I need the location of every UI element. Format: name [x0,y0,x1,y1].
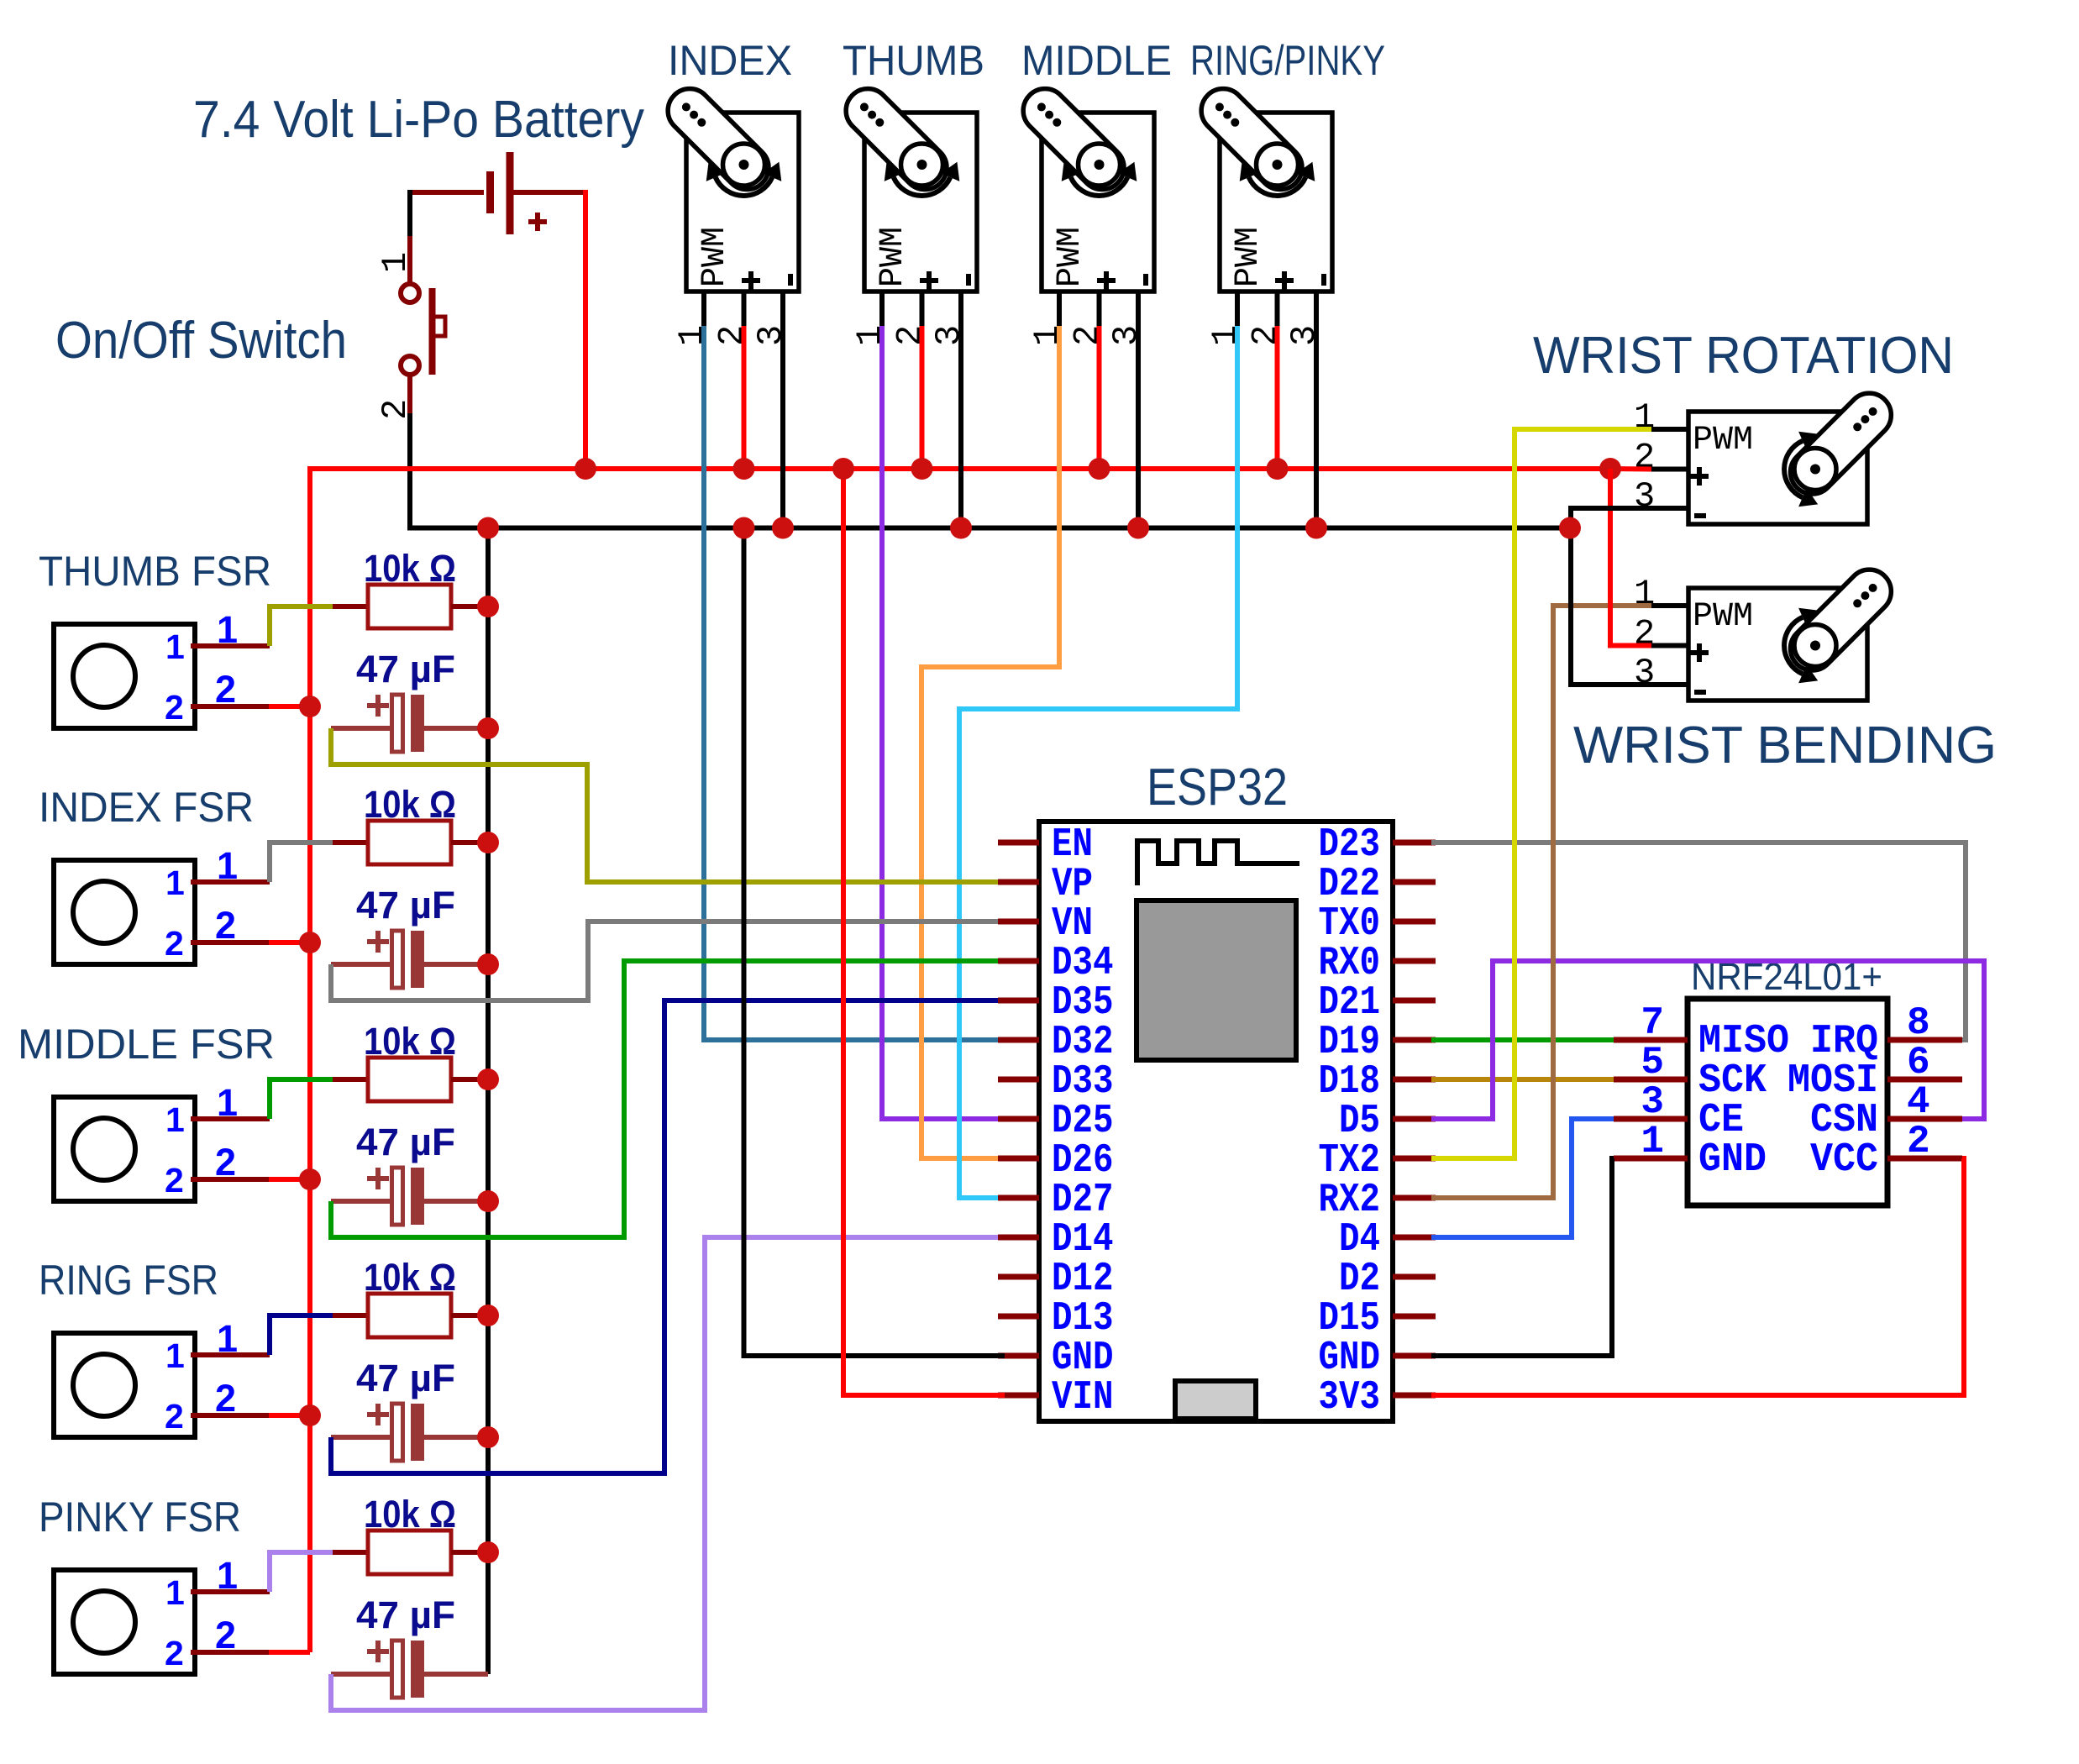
ESP32 pin GND [1393,1353,1436,1359]
junction dot R1 to ground column [477,596,499,617]
NRF24L01+ pin 8 IRQ [1887,1037,1962,1043]
junction dot switch/ground column [477,517,499,539]
wire THUMB servo pin 1 (PWM) [879,291,885,326]
svg-text:INDEX FSR: INDEX FSR [39,784,254,831]
svg-text:PWM: PWM [1052,227,1089,287]
wire THUMB FSR divider tap to ESP32 [331,728,1005,882]
wire RING FSR divider tap to ESP32 [331,1000,1005,1473]
wire switch pin 2 to ground bus [407,375,412,413]
force sensor PINKY FSR [54,1570,195,1674]
capacitor 47uF C1 [367,703,389,708]
svg-text:D15: D15 [1319,1296,1381,1341]
wire red drop to wrist bending + [1610,469,1651,646]
black ground bus [407,526,1570,531]
wire INDEX PWM to ESP32 D32 [704,326,1005,1040]
svg-text:IRQ: IRQ [1810,1019,1878,1064]
junction dot THUMB + [911,458,933,480]
junction dot pin2/red column [299,1404,321,1426]
junction dot RING/PINKY - [1305,517,1327,539]
svg-text:VCC: VCC [1810,1137,1878,1183]
red bus left drop to FSR pin2 column [307,466,312,1652]
wire ESP32 D4 to NRF CE [1431,1119,1614,1237]
svg-text:5: 5 [1641,1041,1664,1084]
junction dot MIDDLE + [1089,458,1110,480]
svg-text:MIDDLE: MIDDLE [1021,37,1172,84]
svg-text:THUMB: THUMB [843,37,984,84]
force sensor THUMB FSR [54,624,195,728]
capacitor 47uF C3 [367,1176,389,1181]
ESP32 pin RX2 [1393,1195,1436,1201]
svg-text:1: 1 [165,1100,185,1139]
svg-text:RING/PINKY: RING/PINKY [1190,37,1385,84]
servo motor wrist rotation [1634,384,1900,524]
wire PINKY FSR divider tap to ESP32 [331,1237,1005,1710]
ESP32 pin VIN [998,1393,1039,1399]
svg-text:2: 2 [165,1397,184,1436]
svg-text:D33: D33 [1052,1059,1114,1105]
wire ESP32 GND(left) to ground bus [744,528,1005,1357]
resistor 10k R4 [333,1313,368,1318]
svg-text:1: 1 [165,627,185,666]
svg-text:8: 8 [1907,1001,1930,1045]
wire MIDDLE servo pin 3 (-) to ground bus [1136,291,1141,528]
junction dot wrist -/ground bus [1559,517,1581,539]
svg-text:2: 2 [165,688,184,727]
wire ESP32 D18 to NRF SCK [1431,1077,1614,1082]
ESP32 pin D15 [1393,1314,1436,1320]
svg-text:2: 2 [165,1634,184,1672]
wire INDEX FSR pin 1 [191,879,270,885]
servo motor MIDDLE [1014,80,1154,346]
svg-text:D21: D21 [1319,980,1381,1026]
wire RING FSR pin 1 [191,1352,270,1357]
resistor 10k R3 [333,1077,368,1082]
svg-text:D27: D27 [1052,1178,1114,1223]
svg-text:WRIST ROTATION: WRIST ROTATION [1533,327,1954,385]
junction dot INDEX - [772,517,794,539]
junction dot wrist + [1599,458,1621,480]
ESP32 pin D25 [998,1116,1039,1122]
ESP32 pin D14 [998,1235,1039,1241]
wire MIDDLE FSR pin 2 to red column [191,1177,269,1182]
wire ESP32 GND to NRF GND [1431,1158,1614,1356]
svg-text:MOSI: MOSI [1788,1058,1878,1104]
force sensor RING FSR [54,1333,195,1437]
svg-text:INDEX: INDEX [668,37,792,84]
wire RING/PINKY servo pin 1 (PWM) [1235,291,1240,326]
junction dot R2 to ground column [477,832,499,853]
svg-text:D26: D26 [1052,1138,1114,1184]
junction dot C3 to ground column [477,1190,499,1212]
svg-text:MISO: MISO [1698,1019,1789,1064]
microcontroller ESP32 U1 [1039,822,1393,1421]
svg-text:PWM: PWM [696,227,734,287]
junction dot THUMB - [950,517,972,539]
wire PINKY FSR pin 1 [191,1589,270,1594]
svg-text:D35: D35 [1052,980,1114,1026]
wire THUMB servo pin 3 (-) to ground bus [958,291,963,528]
wire ESP32 TX2 to wrist rotation PWM [1431,429,1651,1158]
svg-text:PWM: PWM [874,227,912,287]
svg-text:1: 1 [1641,1120,1664,1163]
svg-text:TX0: TX0 [1319,901,1381,947]
svg-text:PWM: PWM [1693,598,1753,636]
svg-text:D13: D13 [1052,1296,1114,1341]
capacitor 47uF C5 [367,1649,389,1654]
resistor 10k R1 [333,604,368,609]
svg-text:CSN: CSN [1810,1098,1878,1143]
resistor 10k R2 [333,840,368,845]
svg-text:CE: CE [1698,1098,1744,1143]
junction dot battery/red bus [575,458,596,480]
capacitor 47uF C4 [367,1412,389,1417]
svg-text:47 µF: 47 µF [356,1121,455,1163]
wire INDEX servo pin 3 (-) to ground bus [780,291,785,528]
ESP32 pin D13 [998,1314,1039,1320]
ESP32 pin TX0 [1393,919,1436,925]
ESP32 pin D35 [998,998,1039,1004]
wire ESP32 D5 to NRF CSN [1431,961,1984,1119]
ESP32 pin D26 [998,1156,1039,1162]
svg-text:RX2: RX2 [1319,1178,1381,1223]
servo motor RING/PINKY [1192,80,1332,346]
svg-text:GND: GND [1698,1137,1767,1183]
svg-text:VN: VN [1052,901,1093,947]
wire RING FSR pin 2 to red column [191,1413,269,1418]
ESP32 pin D18 [1393,1077,1436,1083]
junction dot C2 to ground column [477,953,499,975]
svg-text:GND: GND [1052,1336,1114,1381]
svg-text:7.4 Volt Li-Po Battery: 7.4 Volt Li-Po Battery [193,91,644,149]
ground column to FSR resistors [486,528,491,1675]
svg-text:47 µF: 47 µF [356,648,455,690]
wire MIDDLE servo pin 1 (PWM) [1057,291,1062,326]
ESP32 pin D22 [1393,879,1436,885]
wire MIDDLE PWM to ESP32 D26 [921,326,1059,1158]
svg-text:On/Off Switch: On/Off Switch [55,312,347,370]
wire RING/PINKY servo pin 3 (-) to ground bus [1314,291,1319,528]
svg-text:PWM: PWM [1230,227,1268,287]
svg-text:WRIST BENDING: WRIST BENDING [1573,717,1997,774]
NRF24L01+ pin 1 GND [1614,1156,1688,1162]
svg-text:47 µF: 47 µF [356,884,455,927]
svg-text:D34: D34 [1052,941,1114,986]
ESP32 pin RX0 [1393,958,1436,964]
svg-text:D12: D12 [1052,1257,1114,1302]
svg-text:MIDDLE FSR: MIDDLE FSR [18,1021,275,1068]
NRF24L01+ pin 2 VCC [1887,1156,1962,1162]
junction dot MIDDLE - [1127,517,1149,539]
junction dot R4 to ground column [477,1305,499,1326]
svg-text:GND: GND [1319,1336,1381,1381]
ESP32 pin D4 [1393,1235,1436,1241]
svg-text:2: 2 [165,1161,184,1200]
svg-text:2: 2 [165,924,184,963]
ESP32 pin D19 [1393,1037,1436,1043]
svg-text:TX2: TX2 [1319,1138,1381,1184]
NRF24L01+ pin 6 MOSI [1887,1077,1962,1083]
wire battery- to switch pin 1 [407,190,412,236]
ESP32 pin 3V3 [1393,1393,1436,1399]
ESP32 pin D21 [1393,998,1436,1004]
svg-text:1: 1 [165,864,185,902]
ESP32 pin D5 [1393,1116,1436,1122]
junction dot pin2/red column [299,1168,321,1190]
svg-text:D19: D19 [1319,1020,1381,1065]
wire INDEX FSR divider tap to ESP32 [331,921,1005,1000]
radio module NRF24L01+ U2 [1688,999,1887,1205]
ESP32 pin D32 [998,1037,1039,1043]
svg-text:7: 7 [1641,1001,1664,1045]
wire THUMB FSR pin 2 to red column [191,704,269,709]
svg-text:3V3: 3V3 [1319,1375,1381,1420]
svg-text:THUMB FSR: THUMB FSR [39,548,271,595]
junction dot R3 to ground column [477,1068,499,1090]
NRF24L01+ pin 5 SCK [1614,1077,1688,1083]
wire PINKY FSR pin 2 to red column [191,1650,269,1655]
wire THUMB FSR pin 1 [191,643,270,648]
NRF24L01+ pin 3 CE [1614,1116,1688,1122]
resistor 10k R5 [333,1550,368,1555]
junction dot INDEX + [733,458,755,480]
svg-text:47 µF: 47 µF [356,1357,455,1399]
ESP32 pin D12 [998,1274,1039,1280]
svg-text:1: 1 [165,1573,185,1612]
wire MIDDLE FSR divider tap to ESP32 [331,961,1005,1237]
svg-text:PWM: PWM [1693,422,1753,459]
wire wrist rotation pin 3 (-) to ground bus [1571,508,1688,685]
wire RING/PINKY servo pin 2 (+) to red bus [1275,291,1280,326]
wire ESP32 3V3 to NRF VCC [1431,1158,1964,1395]
svg-text:VIN: VIN [1052,1375,1114,1420]
ESP32 pin TX2 [1393,1156,1436,1162]
capacitor 47uF C2 [367,939,389,944]
ESP32 pin D33 [998,1077,1039,1083]
wire INDEX servo pin 1 (PWM) [701,291,706,326]
svg-text:1: 1 [165,1336,185,1375]
wire RING/PINKY PWM to ESP32 D27 [959,326,1237,1198]
ESP32 pin VP [998,879,1039,885]
wire ESP32 D19 to NRF MISO [1431,1037,1614,1042]
junction dot pin2/red column [299,696,321,717]
wire MIDDLE FSR pin 1 [191,1116,270,1121]
junction dot RING/PINKY + [1267,458,1289,480]
wire ESP32 RX2 to wrist bending PWM [1431,606,1651,1198]
svg-text:D4: D4 [1339,1217,1380,1263]
svg-text:SCK: SCK [1698,1058,1767,1104]
wire wrist bending pin 2 (+) [1651,643,1688,648]
svg-text:2: 2 [1907,1120,1930,1163]
wire THUMB servo pin 2 (+) to red bus [920,291,925,326]
svg-text:RING FSR: RING FSR [39,1257,218,1304]
svg-text:VP: VP [1052,862,1093,907]
servo motor THUMB [837,80,977,346]
servo motor INDEX [659,80,799,346]
ESP32 pin D23 [1393,840,1436,846]
wire wrist rotation pin 2 (+) from red bus [1610,466,1651,472]
force sensor MIDDLE FSR [54,1097,195,1201]
force sensor INDEX FSR [54,860,195,964]
svg-text:D5: D5 [1339,1099,1380,1144]
junction dot R5 to ground column [477,1541,499,1563]
junction dot pin2/red column [299,932,321,953]
svg-text:1: 1 [375,252,416,273]
NRF24L01+ pin 4 CSN [1887,1116,1962,1122]
wire ESP32 VIN to red bus [843,469,1005,1395]
svg-text:6: 6 [1907,1041,1930,1084]
junction dot GND/ground bus [733,517,755,539]
junction dot VIN/red bus [832,458,854,480]
svg-text:ESP32: ESP32 [1147,759,1288,816]
ESP32 pin EN [998,840,1039,846]
wire MIDDLE servo pin 2 (+) to red bus [1097,291,1102,326]
svg-text:PINKY FSR: PINKY FSR [39,1494,241,1541]
svg-text:4: 4 [1907,1080,1930,1124]
svg-text:RX0: RX0 [1319,941,1381,986]
svg-text:D18: D18 [1319,1059,1381,1105]
wire INDEX servo pin 2 (+) to red bus [742,291,747,326]
svg-text:D32: D32 [1052,1020,1114,1065]
svg-text:D22: D22 [1319,862,1381,907]
wire wrist rotation pin 1 (PWM) [1651,427,1688,432]
svg-text:D23: D23 [1319,822,1381,868]
svg-text:D2: D2 [1339,1257,1380,1302]
ESP32 pin GND [998,1353,1039,1359]
svg-text:D25: D25 [1052,1099,1114,1144]
ESP32 pin D27 [998,1195,1039,1201]
junction dot C1 to ground column [477,717,499,739]
ESP32 pin D2 [1393,1274,1436,1280]
wire INDEX FSR pin 2 to red column [191,940,269,945]
ESP32 pin D34 [998,958,1039,964]
wire wrist bending pin 1 (PWM) [1651,603,1688,608]
svg-text:47 µF: 47 µF [356,1593,455,1636]
ESP32 pin VN [998,919,1039,925]
svg-text:3: 3 [1634,653,1655,693]
svg-text:D14: D14 [1052,1217,1114,1263]
wire battery+ to red bus [583,192,585,469]
wire THUMB PWM to ESP32 D25 [882,326,1005,1119]
battery BT1 [410,190,484,195]
svg-text:3: 3 [1641,1080,1664,1124]
junction dot C4 to ground column [477,1426,499,1448]
servo motor wrist bending [1634,560,1900,701]
wire ESP32 D23 to NRF IRQ [1431,843,1966,1040]
NRF24L01+ pin 7 MISO [1614,1037,1688,1043]
svg-text:EN: EN [1052,822,1093,868]
red power bus [310,466,1610,471]
